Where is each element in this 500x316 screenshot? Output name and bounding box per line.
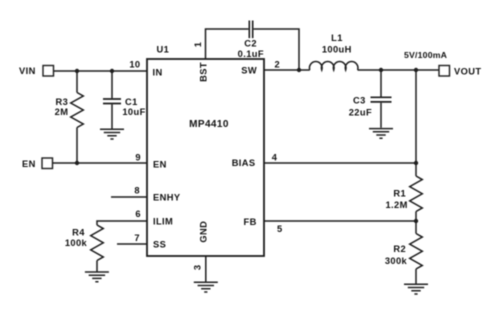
svg-text:100uH: 100uH	[322, 44, 352, 54]
svg-text:BIAS: BIAS	[232, 158, 256, 168]
svg-text:MP4410: MP4410	[189, 119, 229, 130]
svg-text:2: 2	[275, 60, 281, 70]
svg-text:300k: 300k	[385, 256, 408, 266]
svg-text:3: 3	[193, 265, 203, 271]
svg-text:BST: BST	[198, 62, 208, 82]
svg-text:C3: C3	[353, 96, 366, 106]
svg-text:5V/100mA: 5V/100mA	[404, 50, 448, 60]
svg-text:L1: L1	[331, 33, 343, 43]
svg-text:VOUT: VOUT	[454, 67, 481, 77]
svg-text:SW: SW	[241, 66, 257, 76]
svg-text:22uF: 22uF	[349, 108, 372, 118]
svg-text:IN: IN	[153, 67, 163, 77]
svg-text:1.2M: 1.2M	[385, 200, 407, 210]
svg-text:100k: 100k	[65, 238, 88, 248]
svg-text:ILIM: ILIM	[153, 217, 173, 227]
svg-text:10: 10	[129, 60, 140, 70]
svg-text:EN: EN	[22, 159, 36, 169]
svg-text:ENHY: ENHY	[153, 193, 181, 203]
svg-text:R3: R3	[55, 97, 68, 107]
svg-text:R4: R4	[72, 228, 85, 238]
svg-text:VIN: VIN	[19, 66, 36, 76]
svg-text:10uF: 10uF	[122, 107, 145, 117]
svg-text:6: 6	[135, 209, 141, 219]
svg-text:7: 7	[134, 233, 140, 243]
svg-text:2M: 2M	[55, 107, 69, 117]
svg-text:8: 8	[134, 185, 140, 195]
svg-text:U1: U1	[157, 45, 170, 55]
svg-text:R1: R1	[393, 189, 406, 199]
svg-text:C1: C1	[125, 97, 138, 107]
svg-text:0.1uF: 0.1uF	[238, 49, 264, 59]
svg-text:FB: FB	[243, 217, 256, 227]
svg-text:R2: R2	[393, 244, 406, 254]
svg-text:EN: EN	[153, 159, 167, 169]
svg-text:GND: GND	[198, 221, 208, 243]
svg-text:SS: SS	[153, 240, 166, 250]
svg-text:1: 1	[193, 42, 203, 48]
svg-text:C2: C2	[244, 38, 257, 48]
svg-text:9: 9	[135, 153, 141, 163]
svg-text:4: 4	[272, 153, 278, 163]
svg-text:5: 5	[277, 224, 283, 234]
